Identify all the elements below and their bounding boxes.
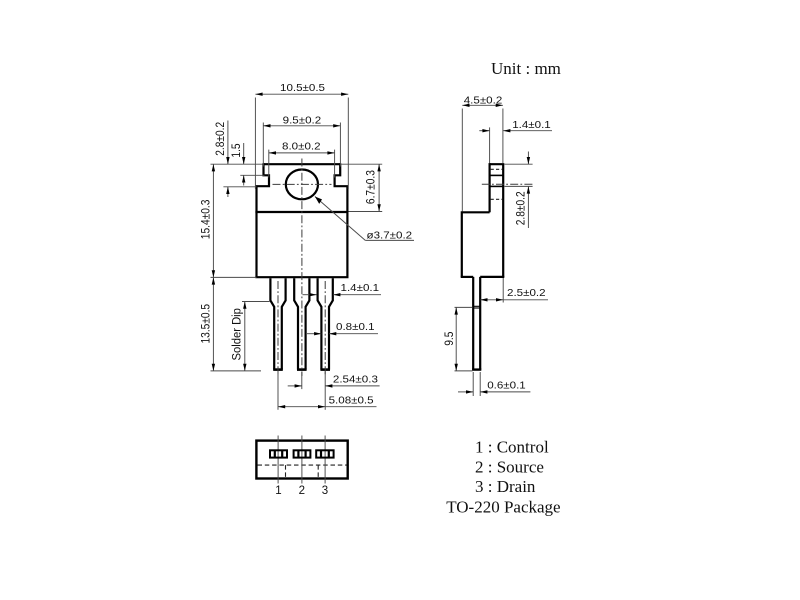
svg-text:1.5: 1.5	[230, 143, 243, 157]
side view lead	[472, 277, 481, 370]
dimension 1.5	[230, 143, 245, 186]
dimension 8.0±0.2	[269, 141, 335, 178]
dimension 6.7±0.3	[341, 164, 382, 211]
dimension 9.5±0.2	[263, 115, 340, 167]
side view hole hidden lines	[491, 168, 503, 170]
front view package outline	[255, 163, 348, 277]
dimension 5.08±0.5	[278, 372, 377, 410]
dimension 9.5 side	[443, 307, 472, 371]
svg-text:4.5±0.2: 4.5±0.2	[464, 95, 503, 106]
hole centerline horizontal	[273, 183, 332, 185]
dimension 10.5±0.5	[255, 83, 348, 189]
svg-text:3: 3	[322, 485, 328, 497]
svg-text:0.8±0.1: 0.8±0.1	[336, 322, 375, 333]
bottom view dashed lines	[258, 464, 347, 466]
svg-text:TO-220 Package: TO-220 Package	[446, 498, 560, 517]
svg-text:5.08±0.5: 5.08±0.5	[329, 395, 374, 406]
dimension 13.5±0.5	[200, 277, 261, 371]
svg-text:1 : Control: 1 : Control	[475, 438, 549, 457]
svg-text:2 : Source: 2 : Source	[475, 458, 544, 477]
svg-text:ø3.7±0.2: ø3.7±0.2	[367, 230, 413, 241]
dimension 1.4±0.1 front	[303, 283, 382, 297]
hole diameter ø3.7±0.2 leader	[315, 197, 414, 242]
dimension 2.8±0.2 side	[505, 152, 533, 229]
side view outline	[461, 163, 505, 277]
dimension Solder Dip	[231, 302, 269, 371]
side view hole centerline	[482, 183, 533, 185]
svg-text:2.5±0.2: 2.5±0.2	[507, 288, 546, 299]
svg-text:13.5±0.5: 13.5±0.5	[200, 304, 213, 344]
svg-text:2.54±0.3: 2.54±0.3	[333, 374, 378, 385]
pad 1	[270, 450, 287, 457]
dimension 2.8±0.2 left	[215, 121, 230, 198]
bottom view outline	[256, 441, 347, 479]
dimension 4.5±0.2 side	[462, 95, 503, 211]
side lead solder dip mark	[473, 305, 480, 307]
bottom view pin centerlines	[277, 436, 279, 484]
svg-text:9.5±0.2: 9.5±0.2	[283, 115, 322, 126]
dimension 2.5±0.2 side	[480, 278, 548, 303]
dimension 2.54±0.3	[288, 372, 380, 410]
side view tab notch lines	[490, 174, 504, 176]
pad 2	[294, 450, 311, 457]
extension line notch bottom left	[223, 186, 256, 188]
svg-text:0.6±0.1: 0.6±0.1	[487, 380, 526, 391]
svg-text:8.0±0.2: 8.0±0.2	[282, 141, 321, 152]
svg-text:9.5: 9.5	[443, 332, 456, 346]
svg-text:3 : Drain: 3 : Drain	[475, 477, 536, 496]
dimension 0.8±0.1 front	[307, 322, 378, 336]
lead 3 centerline	[324, 281, 326, 376]
svg-text:1.4±0.1: 1.4±0.1	[341, 283, 380, 294]
dimension 0.6±0.1 side	[458, 372, 530, 396]
mounting hole	[286, 170, 318, 200]
centerline vertical front	[301, 159, 303, 377]
leads front view	[270, 278, 332, 369]
svg-text:Unit : mm: Unit : mm	[491, 59, 561, 78]
dimension 15.4±0.3	[200, 164, 256, 277]
svg-text:2.8±0.2: 2.8±0.2	[515, 191, 528, 225]
svg-text:Solder Dip: Solder Dip	[231, 308, 243, 360]
svg-text:1: 1	[275, 485, 281, 497]
pad 3	[316, 450, 333, 457]
svg-text:6.7±0.3: 6.7±0.3	[365, 170, 378, 204]
svg-text:15.4±0.3: 15.4±0.3	[200, 200, 213, 240]
dimension 1.4±0.1 side	[479, 120, 552, 163]
svg-text:2.8±0.2: 2.8±0.2	[215, 122, 228, 156]
extension line tab top left	[211, 163, 263, 165]
lead 1 centerline	[277, 281, 279, 376]
svg-text:2: 2	[299, 485, 305, 497]
svg-text:1.4±0.1: 1.4±0.1	[512, 120, 551, 131]
extension line step left	[240, 174, 264, 176]
svg-text:10.5±0.5: 10.5±0.5	[280, 83, 325, 94]
